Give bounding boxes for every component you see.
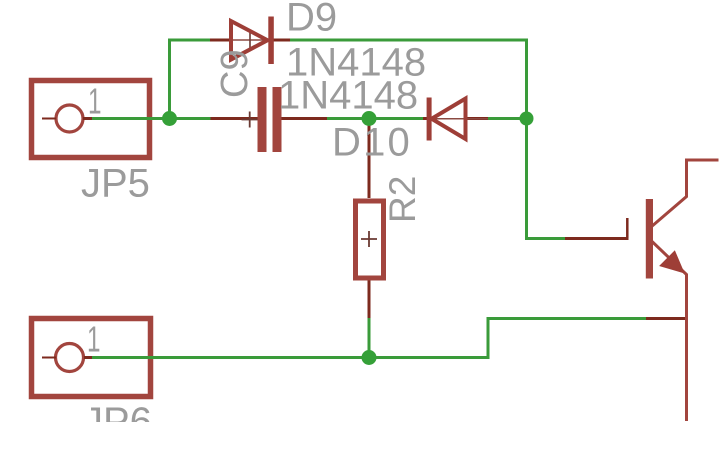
svg-text:1: 1 <box>87 319 101 360</box>
JP5 pin 1 lead tick <box>42 118 56 120</box>
junction node C <box>520 112 534 126</box>
transistor Q1 collector <box>651 160 719 227</box>
wire bottom net JP6 to node D and corner <box>92 319 646 358</box>
connector JP5 body <box>32 81 150 158</box>
JP6 pin 1 circle <box>56 344 84 372</box>
resistor R2 plus tick <box>361 231 377 247</box>
wire Q1 base red segment <box>565 237 629 240</box>
JP6 pin 1 lead tick <box>42 357 56 359</box>
svg-text:C9: C9 <box>214 49 256 98</box>
wire R2 bottom lead to node D <box>368 318 371 358</box>
transistor Q1 emitter arrow <box>661 252 683 272</box>
wire top branch from D9 to node C <box>290 40 527 115</box>
wire Q1 base stub <box>626 218 629 238</box>
junction node B <box>362 111 377 126</box>
connector JP6 body <box>32 319 151 397</box>
wire node A to C9 <box>170 117 211 120</box>
svg-text:1: 1 <box>88 81 102 122</box>
diode D10 pin line <box>431 118 488 120</box>
diode D10 triangle <box>432 99 466 140</box>
wire D10 anode red segment <box>466 117 489 120</box>
wire D9 cathode red segment <box>273 39 290 42</box>
wire bottom net red segment to Q1 emitter <box>646 317 688 320</box>
svg-text:1N4148: 1N4148 <box>278 74 418 118</box>
diode D9 cathode bar <box>268 17 274 65</box>
transistor Q1 base bar <box>646 199 653 279</box>
capacitor C9 left plate <box>258 87 267 152</box>
transistor Q1 emitter <box>651 241 687 422</box>
diode D9 plus tick <box>249 32 251 50</box>
svg-text:D10: D10 <box>332 121 412 165</box>
wire C9 right lead red <box>282 117 328 120</box>
wire node B to D10 cathode <box>369 117 423 120</box>
junction node D <box>362 350 377 365</box>
wire C9 to node B <box>327 117 369 120</box>
wire C9 left lead red <box>211 117 258 120</box>
wire node A up to top branch and to D9 anode <box>170 40 211 119</box>
svg-text:R2: R2 <box>382 176 423 223</box>
diode D9 triangle <box>231 21 268 60</box>
wire R2 bottom lead red <box>368 280 371 318</box>
wire R2 top lead red <box>368 119 371 198</box>
svg-text:JP5: JP5 <box>81 162 150 206</box>
diode D9 pin line <box>229 39 272 41</box>
wire node C down and right to Q1 base <box>527 119 566 239</box>
wire D10 anode to node C <box>488 117 527 120</box>
JP5 pin 1 circle <box>56 105 83 132</box>
JP6 pin 1 lead <box>84 356 92 359</box>
wire net from JP5 pin to node A <box>92 117 166 120</box>
capacitor C9 plus sign <box>242 112 258 128</box>
diode D10 cathode bar <box>427 98 432 141</box>
capacitor C9 right plate <box>273 87 282 152</box>
wire D9 anode red segment <box>210 39 229 42</box>
JP5 pin 1 lead <box>83 117 92 120</box>
label JP6 (clipped at image bottom) <box>83 400 152 444</box>
wire D10 cathode red segment <box>423 117 427 120</box>
wire JP6 pin red segment <box>84 356 92 359</box>
resistor R2 body <box>356 201 384 278</box>
junction node A <box>162 111 177 126</box>
svg-text:D9: D9 <box>286 0 337 40</box>
